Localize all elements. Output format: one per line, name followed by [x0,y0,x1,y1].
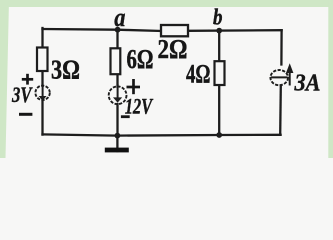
wire middle branch upper [116,30,118,49]
current source I1 arrow [286,63,293,85]
wire left branch middle [41,71,43,86]
wire left branch upper [41,28,43,48]
wire right branch upper [280,30,283,64]
wire top right segment [188,29,282,32]
ground bar [105,148,129,153]
resistor R1 3ohm [37,48,48,72]
node a dot [115,27,121,33]
svg-text:3V: 3V [11,82,33,107]
voltage source V1 3V circle [35,86,49,100]
resistor R2 6ohm [111,48,121,74]
wire b branch upper [218,31,220,62]
svg-text:6Ω: 6Ω [127,44,154,74]
svg-text:3Ω: 3Ω [51,54,80,84]
svg-text:b: b [213,5,223,30]
node b dot [216,28,222,34]
plus sign of V2 [127,79,141,94]
wire middle branch middle [116,74,118,86]
wire b branch lower [218,85,220,135]
wire bottom [43,134,281,135]
minus sign of V2 [121,115,130,118]
junction dot bottom b [216,132,222,138]
voltage source V2 12V circle [109,86,127,104]
junction dot bottom middle [115,133,121,139]
svg-text:3A: 3A [294,70,321,96]
current source I1 3A circle [270,70,288,85]
resistor R3 2ohm [161,25,188,36]
wire top left segment [43,29,162,31]
resistor R4 4ohm [215,61,225,85]
ground stub [116,136,118,153]
svg-text:a: a [114,3,125,32]
voltage source V2 arrow [113,84,122,103]
page background [0,0,333,158]
wire left branch lower [41,100,43,135]
current source I1 bar [271,76,288,78]
wire right branch lower [279,86,282,135]
plus sign of V1 [22,74,33,85]
svg-text:12V: 12V [125,94,154,119]
svg-text:4Ω: 4Ω [186,59,211,88]
voltage source V1 arrow [39,85,47,100]
minus sign of V1 [19,113,32,116]
wire middle branch lower [116,104,118,136]
svg-text:2Ω: 2Ω [158,34,188,64]
